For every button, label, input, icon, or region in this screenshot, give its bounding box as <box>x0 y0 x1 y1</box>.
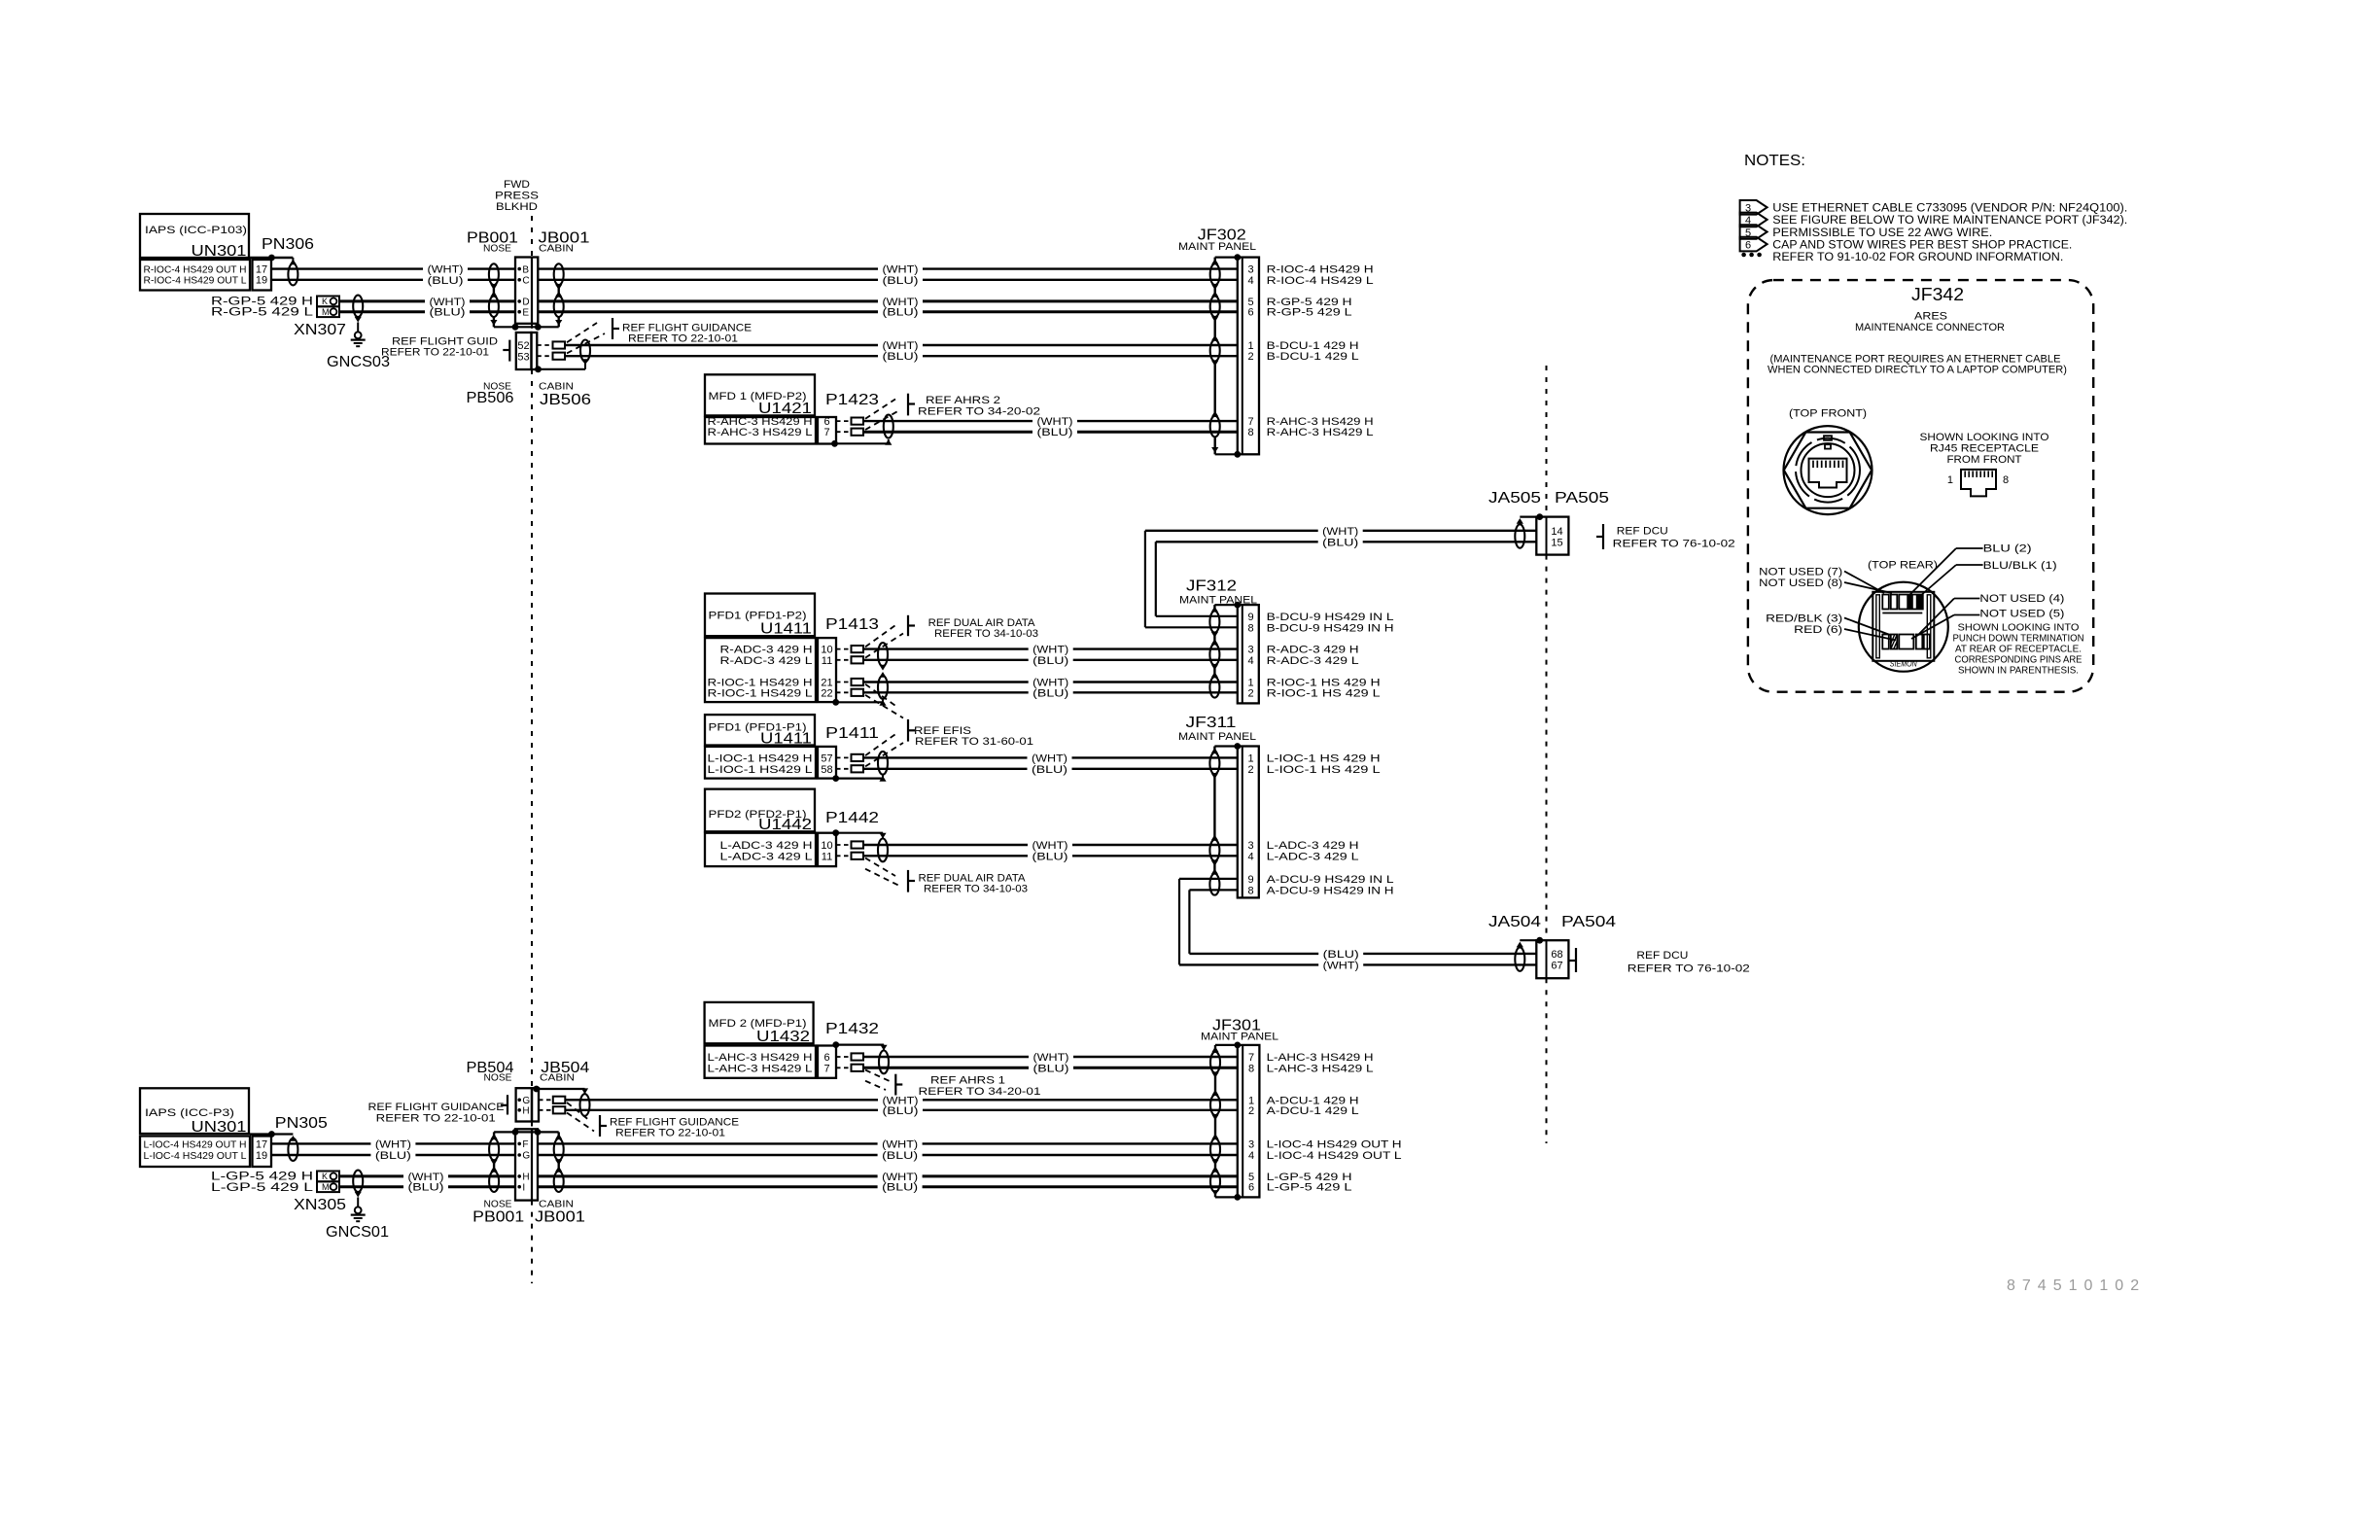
svg-text:(MAINTENANCE PORT REQUIRES AN: (MAINTENANCE PORT REQUIRES AN ETHERNET C… <box>1770 353 2061 365</box>
svg-text:(BLU): (BLU) <box>882 1150 918 1162</box>
wire L-AHC-3 HS429 L (BLU) P1432-JF301 <box>863 1067 1029 1069</box>
svg-text:E: E <box>522 307 529 318</box>
unit UN301 (ICC-P3) signal box <box>140 1137 250 1168</box>
svg-text:FWD: FWD <box>504 179 530 191</box>
svg-text:6: 6 <box>1248 307 1254 319</box>
svg-text:B-DCU-1 429 H: B-DCU-1 429 H <box>1267 340 1359 352</box>
node PN306 shield tie <box>268 255 275 262</box>
connector XN305 contact M <box>317 1181 339 1192</box>
connector JF311 box <box>1238 747 1259 898</box>
wire L-ADC-3 429 H (WHT) P1442-JF311 <box>863 844 1028 846</box>
svg-text:R-IOC-4 HS429 H: R-IOC-4 HS429 H <box>1267 264 1374 276</box>
unit U1432 signal box <box>705 1046 816 1078</box>
unit U1442 PFD2 label box <box>705 789 815 832</box>
svg-text:2: 2 <box>1248 1105 1254 1117</box>
connector JA505/PA505 box <box>1536 517 1568 555</box>
svg-text:R-IOC-4 HS429 OUT H: R-IOC-4 HS429 OUT H <box>144 264 247 275</box>
svg-text:(BLU): (BLU) <box>1037 427 1073 438</box>
note flag 6 <box>1740 237 1767 252</box>
ref leader dashes to REF AHRS 1 <box>865 1070 890 1082</box>
svg-text:H: H <box>522 1106 529 1117</box>
wire R-IOC-1 HS429 L (BLU) P1413-JF312 <box>863 691 1029 693</box>
connector PN306 pin box <box>253 260 272 291</box>
shield chain JF302 <box>1213 258 1215 264</box>
svg-text:1: 1 <box>1248 752 1254 764</box>
shield bus below PB001 top <box>494 326 559 328</box>
svg-text:PA504: PA504 <box>1561 914 1616 930</box>
svg-text:ARES: ARES <box>1914 311 1947 323</box>
svg-text:REFER TO 91-10-02 FOR GROUND I: REFER TO 91-10-02 FOR GROUND INFORMATION… <box>1772 252 2063 263</box>
wire L-IOC-4 OUT L (BLU) PN305-PB001 <box>271 1154 370 1156</box>
svg-text:2: 2 <box>1248 687 1254 699</box>
shield chain left of PB001 bottom <box>493 1132 495 1138</box>
svg-text:(WHT): (WHT) <box>1032 645 1068 656</box>
shield at P1432 <box>832 1041 839 1048</box>
svg-text:(BLU): (BLU) <box>883 351 919 363</box>
svg-text:CABIN: CABIN <box>539 382 574 393</box>
ref note REF DUAL AIR DATA (P1413) <box>907 615 909 636</box>
shield chain JF311 <box>1213 747 1215 753</box>
svg-text:(WHT): (WHT) <box>428 264 464 276</box>
svg-text:L-IOC-4 HS429 OUT H: L-IOC-4 HS429 OUT H <box>144 1139 247 1150</box>
svg-text:(BLU): (BLU) <box>1033 1063 1069 1074</box>
small RJ45 front icon <box>1961 470 1996 497</box>
svg-text:(WHT): (WHT) <box>882 1138 918 1150</box>
svg-text:PRESS: PRESS <box>495 191 539 202</box>
svg-text:JA505: JA505 <box>1488 490 1541 507</box>
unit U1411 PFD1-P1 label box <box>705 715 815 745</box>
svg-text:REF FLIGHT GUIDANCE: REF FLIGHT GUIDANCE <box>368 1102 505 1113</box>
svg-text:7: 7 <box>823 427 829 438</box>
bulkhead dashed line (FWD PRESS BLKHD) <box>531 216 533 258</box>
connector JF302 box <box>1238 258 1259 455</box>
wire R-GP-5 L (BLU) JB001-JF302 <box>538 310 878 313</box>
svg-text:XN307: XN307 <box>294 322 346 338</box>
svg-text:R-IOC-4 HS429 OUT L: R-IOC-4 HS429 OUT L <box>144 275 247 286</box>
svg-text:IAPS (ICC-P103): IAPS (ICC-P103) <box>145 225 247 236</box>
svg-text:R-IOC-1 HS429 L: R-IOC-1 HS429 L <box>708 687 813 699</box>
svg-text:REFER TO 76-10-02: REFER TO 76-10-02 <box>1613 539 1735 550</box>
svg-text:2: 2 <box>1248 351 1254 363</box>
svg-text:BLKHD: BLKHD <box>496 201 538 213</box>
svg-text:L-GP-5 429 L: L-GP-5 429 L <box>211 1182 314 1194</box>
svg-text:D: D <box>522 297 529 308</box>
unit UN301 IAPS (ICC-P103) label box <box>140 214 249 258</box>
shield chain JF301 <box>1214 1045 1216 1052</box>
wire pin53 dash to splice <box>537 355 552 357</box>
connector XN307 contact M <box>317 306 339 317</box>
JF342 front RJ45 jack <box>1809 459 1847 488</box>
shield tie JB504 <box>533 1086 540 1093</box>
svg-text:(WHT): (WHT) <box>1032 752 1067 764</box>
dashes pins to splices JB504 <box>539 1099 553 1101</box>
dashes pins to splices P1442 <box>836 844 852 846</box>
svg-text:JF342: JF342 <box>1911 285 1964 304</box>
shield XN307 <box>353 296 363 317</box>
wire L-GP-5 429 H (WHT) XN305-PB001 <box>339 1174 403 1177</box>
svg-text:(WHT): (WHT) <box>1033 1052 1069 1064</box>
wire A-DCU-9 IN H (BLU) JF311-JA504 <box>1189 953 1318 955</box>
svg-text:REF DCU: REF DCU <box>1617 526 1668 538</box>
svg-text:53: 53 <box>517 351 529 363</box>
svg-text:4: 4 <box>1248 655 1254 667</box>
svg-text:P1423: P1423 <box>825 392 879 408</box>
ref note REF FLIGHT GUIDANCE (JB506) <box>612 318 613 339</box>
shield tie JF312 <box>1214 604 1237 606</box>
splice wire R-AHC-3 H <box>852 418 864 425</box>
svg-text:(BLU): (BLU) <box>882 1182 918 1194</box>
svg-text:(BLU): (BLU) <box>428 275 464 287</box>
svg-text:4: 4 <box>1248 275 1254 287</box>
svg-text:MAINTENANCE CONNECTOR: MAINTENANCE CONNECTOR <box>1855 322 2005 333</box>
svg-text:9: 9 <box>1248 874 1254 886</box>
svg-text:L-ADC-3 429 H: L-ADC-3 429 H <box>1267 840 1359 852</box>
svg-text:L-AHC-3 HS429 L: L-AHC-3 HS429 L <box>708 1063 813 1074</box>
svg-text:(BLU): (BLU) <box>430 307 466 319</box>
wire A-DCU-1 429 L (BLU) JB504-JF301 <box>565 1109 878 1111</box>
svg-text:REFER TO 22-10-01: REFER TO 22-10-01 <box>628 333 738 345</box>
connector PB001/JB001 top box <box>515 258 538 324</box>
connector XN307 contact K <box>317 297 339 307</box>
svg-text:NOT USED (8): NOT USED (8) <box>1759 577 1842 589</box>
svg-text:8: 8 <box>1248 885 1254 896</box>
svg-text:14: 14 <box>1551 526 1562 538</box>
svg-text:B-DCU-9 HS429 IN L: B-DCU-9 HS429 IN L <box>1267 612 1394 623</box>
shield at JA505 <box>1517 518 1523 524</box>
svg-text:NOTES:: NOTES: <box>1744 153 1805 169</box>
wire L-GP-5 429 L (BLU) XN305-PB001 <box>339 1185 403 1188</box>
unit U1411 PFD1-P1 signal box <box>705 747 816 779</box>
svg-text:(BLU): (BLU) <box>1322 537 1358 548</box>
svg-text:R-AHC-3 HS429 L: R-AHC-3 HS429 L <box>1267 427 1374 438</box>
svg-text:(BLU): (BLU) <box>1032 764 1067 776</box>
connector P1442 pin box <box>818 833 836 866</box>
ref note REF EFIS <box>907 719 909 742</box>
svg-text:(BLU): (BLU) <box>883 1105 919 1117</box>
wire R-IOC-4 HS429 OUT L (BLU) PN306-PB001 <box>271 279 423 281</box>
svg-text:RJ45 RECEPTACLE: RJ45 RECEPTACLE <box>1930 443 2039 455</box>
svg-text:R-GP-5 429 L: R-GP-5 429 L <box>1267 307 1352 319</box>
ref leader dashes to REF DUAL AIR DATA (P1442) <box>865 858 895 877</box>
right dashed line (nose/cabin split at JA505-JA504) <box>1546 366 1548 517</box>
wire A-DCU-9 IN L (WHT) JF311-JA504 <box>1179 963 1318 965</box>
svg-text:K: K <box>322 1172 328 1181</box>
shield tie JA505 <box>1536 513 1543 520</box>
wire JF312 pin8 stub <box>1145 626 1238 628</box>
svg-text:3: 3 <box>1248 840 1254 852</box>
svg-text:A-DCU-9 HS429 IN H: A-DCU-9 HS429 IN H <box>1267 885 1394 896</box>
shield at P1442 <box>832 829 839 836</box>
svg-text:MAINT PANEL: MAINT PANEL <box>1178 731 1256 743</box>
svg-text:9: 9 <box>1248 612 1254 623</box>
wire B-DCU-1 429 H (WHT) JB506-JF302 <box>565 344 878 346</box>
svg-text:H: H <box>522 1172 529 1183</box>
svg-text:(BLU): (BLU) <box>1032 655 1068 667</box>
connector JA504/PA504 box <box>1536 940 1568 978</box>
connector P1413 pin box <box>818 638 836 702</box>
svg-text:L-AHC-3 HS429 H: L-AHC-3 HS429 H <box>708 1052 813 1064</box>
svg-text:SHOWN LOOKING INTO: SHOWN LOOKING INTO <box>1920 432 2049 443</box>
svg-text:R-ADC-3 429 H: R-ADC-3 429 H <box>1267 645 1359 656</box>
svg-text:F: F <box>522 1139 528 1150</box>
connector JF312 box <box>1238 605 1259 703</box>
svg-text:REFER TO 34-10-03: REFER TO 34-10-03 <box>934 628 1038 640</box>
bracket at PB506 <box>508 340 510 362</box>
svg-text:22: 22 <box>821 687 832 699</box>
wire JF312 pin9 stub <box>1156 615 1238 617</box>
shield PN305 <box>290 1136 297 1141</box>
connector P1432 pin box <box>818 1046 836 1078</box>
svg-text:REFER TO 22-10-01: REFER TO 22-10-01 <box>376 1112 496 1124</box>
svg-text:L-IOC-4 HS429 OUT L: L-IOC-4 HS429 OUT L <box>1267 1150 1402 1162</box>
connector PN305 pin box <box>253 1137 272 1168</box>
JF342 front view connector <box>1784 426 1872 514</box>
unit U1411 PFD1-P2 signal box <box>705 638 816 702</box>
svg-text:NOSE: NOSE <box>484 1073 512 1084</box>
svg-text:1: 1 <box>1248 340 1254 352</box>
shield at JB506 <box>580 340 590 362</box>
svg-text:R-ADC-3 429 L: R-ADC-3 429 L <box>720 655 813 667</box>
svg-text:NOT USED (5): NOT USED (5) <box>1979 609 2064 620</box>
svg-text:PN305: PN305 <box>275 1115 328 1132</box>
wire B-DCU-1 429 L (BLU) JB506-JF302 <box>565 355 878 357</box>
svg-text:(WHT): (WHT) <box>1322 526 1358 538</box>
svg-text:JF312: JF312 <box>1186 578 1237 595</box>
svg-text:4: 4 <box>1248 851 1254 862</box>
svg-text:U1421: U1421 <box>758 401 812 417</box>
wire R-IOC-1 HS429 H (WHT) P1413-JF312 <box>863 681 1029 682</box>
leader NOT USED (8) <box>1844 582 1892 593</box>
svg-text:PB506: PB506 <box>467 390 514 406</box>
svg-text:R-AHC-3 HS429 L: R-AHC-3 HS429 L <box>708 427 813 438</box>
ground GNCS01 <box>357 1198 359 1207</box>
svg-text:(WHT): (WHT) <box>375 1138 411 1150</box>
svg-text:U1432: U1432 <box>756 1029 810 1045</box>
svg-text:C: C <box>522 276 529 287</box>
ref leader dashes JB506 <box>567 323 597 342</box>
svg-text:3: 3 <box>1248 264 1254 276</box>
unit U1411 PFD1-P2 label box <box>705 594 815 637</box>
wire pin52 dash to splice <box>537 344 552 346</box>
shield at P1413 <box>878 643 888 666</box>
svg-text:17: 17 <box>256 1138 267 1150</box>
svg-text:3: 3 <box>1248 1138 1254 1150</box>
connector PB504/JB504 box <box>516 1088 532 1121</box>
connector JF301 box <box>1238 1045 1260 1198</box>
svg-text:B: B <box>522 264 529 275</box>
svg-text:(BLU): (BLU) <box>408 1182 444 1194</box>
wire R-GP-5 429 H (WHT) XN307-PB001 <box>339 299 425 302</box>
svg-text:REF AHRS 1: REF AHRS 1 <box>930 1075 1005 1087</box>
wire L-IOC-4 OUT H (WHT) JB001-JF301 <box>538 1142 878 1144</box>
svg-text:JB506: JB506 <box>540 392 591 408</box>
shield bus ties JF301 <box>1215 1044 1238 1046</box>
svg-text:(WHT): (WHT) <box>1323 960 1359 971</box>
svg-text:PA505: PA505 <box>1555 490 1609 507</box>
leader RED (6) <box>1844 629 1896 641</box>
svg-text:67: 67 <box>1551 960 1562 971</box>
connector XN305 contact K <box>317 1172 339 1182</box>
ref note REF DCU (JA505) <box>1602 524 1604 549</box>
svg-text:WHEN CONNECTED DIRECTLY TO A L: WHEN CONNECTED DIRECTLY TO A LAPTOP COMP… <box>1767 365 2067 376</box>
svg-text:R-IOC-4 HS429 L: R-IOC-4 HS429 L <box>1267 275 1374 287</box>
connector P1411 pin box <box>818 747 836 779</box>
unit U1421 signal box <box>705 417 816 444</box>
wire B-DCU-9 IN H (WHT) JF312-JA505 <box>1144 531 1146 628</box>
shield bus ties JF302 <box>1215 257 1238 259</box>
svg-text:XN305: XN305 <box>294 1197 346 1213</box>
wire L-GP-5 H (WHT) JB001-JF301 <box>538 1174 878 1177</box>
wire R-GP-5 429 L (BLU) XN307-PB001 <box>339 310 425 313</box>
svg-text:REF AHRS 2: REF AHRS 2 <box>926 395 1000 406</box>
wire R-IOC-4 HS429 OUT H (WHT) PN306-PB001 <box>271 267 423 269</box>
svg-text:L-AHC-3 HS429 H: L-AHC-3 HS429 H <box>1267 1052 1374 1064</box>
svg-text:2: 2 <box>1248 764 1254 776</box>
ref note REF DCU (JA504) <box>1575 948 1577 972</box>
ref leader dashes to REF EFIS from pins 57/58 <box>865 732 898 755</box>
unit U1432 MFD 2 label box <box>705 1002 814 1043</box>
wire R-AHC-3 HS429 H (WHT) P1423-JF302 <box>863 420 1032 422</box>
svg-text:REF FLIGHT GUIDANCE: REF FLIGHT GUIDANCE <box>610 1116 739 1128</box>
svg-text:G: G <box>522 1151 530 1162</box>
svg-text:10: 10 <box>821 645 832 656</box>
svg-text:REFER TO 31-60-01: REFER TO 31-60-01 <box>915 736 1033 748</box>
unit U1442 signal box <box>705 833 816 866</box>
wire R-IOC-4 L (BLU) JB001-JF302 <box>538 279 878 281</box>
wire R-AHC-3 HS429 L (BLU) P1423-JF302 <box>863 431 1032 434</box>
unit U1421 MFD 1 label box <box>705 374 815 415</box>
wire L-IOC-1 HS429 L (BLU) P1411-JF311 <box>863 768 1028 770</box>
svg-text:A-DCU-9 HS429 IN L: A-DCU-9 HS429 IN L <box>1267 874 1394 886</box>
JF342 dashed detail box <box>1748 280 2093 692</box>
svg-text:CAP AND STOW WIRES PER BEST SH: CAP AND STOW WIRES PER BEST SHOP PRACTIC… <box>1772 239 2072 251</box>
svg-text:10: 10 <box>821 840 832 852</box>
svg-text:19: 19 <box>256 274 267 286</box>
shield tie JA504 <box>1536 937 1543 944</box>
wire R-IOC-4 H (WHT) JB001-JF302 <box>538 267 878 269</box>
splice on wire 52 <box>553 341 566 348</box>
unit UN301 IAPS (ICC-P3) label box <box>140 1088 249 1134</box>
svg-text:PERMISSIBLE TO USE 22 AWG WIRE: PERMISSIBLE TO USE 22 AWG WIRE. <box>1772 227 1992 239</box>
connector PB506/JB506 box <box>516 332 532 369</box>
svg-text:68: 68 <box>1551 949 1562 961</box>
svg-text:58: 58 <box>821 764 832 776</box>
svg-text:7: 7 <box>1248 1052 1254 1064</box>
svg-text:REF DCU: REF DCU <box>1636 950 1688 962</box>
svg-text:1: 1 <box>1947 474 1953 486</box>
wire L-GP-5 L (BLU) JB001-JF301 <box>538 1185 878 1188</box>
svg-text:REF FLIGHT GUIDANCE: REF FLIGHT GUIDANCE <box>622 322 752 333</box>
svg-text:R-ADC-3 429 L: R-ADC-3 429 L <box>1267 655 1359 667</box>
bracket at PB504 <box>507 1095 508 1114</box>
shield tie PN305 <box>268 1131 275 1137</box>
svg-text:P1413: P1413 <box>825 616 879 633</box>
svg-text:PB001: PB001 <box>472 1209 524 1226</box>
svg-text:(BLU): (BLU) <box>1032 687 1068 699</box>
svg-text:P1432: P1432 <box>825 1021 879 1037</box>
connector PB001/JB001 bottom box <box>515 1129 538 1200</box>
svg-text:(WHT): (WHT) <box>1032 840 1068 852</box>
svg-text:B-DCU-9 HS429 IN H: B-DCU-9 HS429 IN H <box>1267 622 1394 634</box>
svg-text:P1411: P1411 <box>825 725 879 742</box>
svg-text:(BLU): (BLU) <box>1032 851 1068 862</box>
svg-text:I: I <box>522 1182 525 1193</box>
splice on wire 53 <box>553 353 566 360</box>
note bullet dots <box>1741 253 1746 258</box>
svg-text:L-ADC-3 429 H: L-ADC-3 429 H <box>720 840 813 852</box>
ref leader dashes to REF AHRS 2 <box>865 400 895 419</box>
svg-text:U1411: U1411 <box>760 621 812 638</box>
svg-text:19: 19 <box>256 1150 267 1162</box>
leader RED/BLK (3) <box>1844 618 1890 636</box>
shield chain right of JB001 bottom <box>558 1132 560 1138</box>
svg-text:8: 8 <box>2003 474 2009 486</box>
svg-text:JA504: JA504 <box>1488 914 1541 930</box>
shield at P1423 <box>884 415 893 438</box>
shield PN306 <box>290 260 297 265</box>
svg-text:R-GP-5 429 H: R-GP-5 429 H <box>211 296 313 307</box>
shield chain left of PB001 top <box>493 285 495 297</box>
svg-text:REFER TO 76-10-02: REFER TO 76-10-02 <box>1627 963 1750 975</box>
wire JF311 pin9 bend to JA504 (WHT) <box>1179 878 1238 880</box>
svg-text:REFER TO 22-10-01: REFER TO 22-10-01 <box>615 1128 725 1139</box>
svg-text:L-GP-5 429 L: L-GP-5 429 L <box>1267 1182 1352 1194</box>
wire A-DCU-1 429 H (WHT) JB504-JF301 <box>565 1099 878 1101</box>
note flag 5 <box>1740 225 1767 239</box>
svg-text:IAPS (ICC-P3): IAPS (ICC-P3) <box>145 1107 234 1119</box>
svg-text:U1442: U1442 <box>758 817 812 833</box>
JF342 rear view circle <box>1859 582 1948 672</box>
shield at JB504 <box>580 1094 590 1116</box>
svg-text:MAINT PANEL: MAINT PANEL <box>1201 1032 1278 1043</box>
svg-text:7: 7 <box>823 1063 829 1074</box>
svg-text:REFER TO 34-10-03: REFER TO 34-10-03 <box>924 883 1028 894</box>
svg-text:L-IOC-1 HS 429 L: L-IOC-1 HS 429 L <box>1267 764 1381 776</box>
svg-text:JF311: JF311 <box>1186 715 1237 731</box>
svg-text:L-IOC-1 HS 429 H: L-IOC-1 HS 429 H <box>1267 752 1381 764</box>
svg-text:FROM FRONT: FROM FRONT <box>1947 454 2022 466</box>
svg-text:G: G <box>522 1096 530 1106</box>
svg-text:8: 8 <box>1248 427 1254 438</box>
svg-text:(TOP REAR): (TOP REAR) <box>1868 560 1938 572</box>
svg-text:RED (6): RED (6) <box>1794 624 1842 636</box>
svg-text:L-ADC-3 429 L: L-ADC-3 429 L <box>720 851 813 862</box>
wire R-GP-5 H (WHT) JB001-JF302 <box>538 299 878 302</box>
splice wire R-AHC-3 L <box>852 429 864 436</box>
shield chain right of JB001 top <box>558 285 560 297</box>
svg-text:3: 3 <box>1248 645 1254 656</box>
svg-text:M: M <box>322 1182 330 1192</box>
shield chain JF312 <box>1213 605 1215 611</box>
dashes pins to splices P1432 <box>836 1056 852 1058</box>
svg-text:RED/BLK (3): RED/BLK (3) <box>1766 613 1842 625</box>
svg-text:11: 11 <box>822 655 832 667</box>
ref note REF AHRS 2 <box>907 394 909 416</box>
ref note REF DUAL AIR DATA (P1442) <box>907 870 909 892</box>
svg-text:R-IOC-1 HS 429 L: R-IOC-1 HS 429 L <box>1267 687 1381 699</box>
svg-text:SIEMON: SIEMON <box>1890 660 1917 669</box>
svg-text:UN301: UN301 <box>192 243 247 260</box>
svg-text:L-IOC-1 HS429 H: L-IOC-1 HS429 H <box>708 752 813 764</box>
wire R-ADC-3 429 H (WHT) P1413-JF312 <box>863 647 1029 649</box>
svg-text:U1411: U1411 <box>760 731 812 748</box>
svg-text:(WHT): (WHT) <box>883 340 919 352</box>
svg-text:(WHT): (WHT) <box>883 264 919 276</box>
svg-text:15: 15 <box>1551 537 1562 548</box>
ref leader dashes JB504 <box>567 1102 590 1121</box>
ref leader dashes to REF DUAL AIR DATA (P1413) <box>865 623 898 647</box>
svg-text:MAINT PANEL: MAINT PANEL <box>1178 241 1256 253</box>
